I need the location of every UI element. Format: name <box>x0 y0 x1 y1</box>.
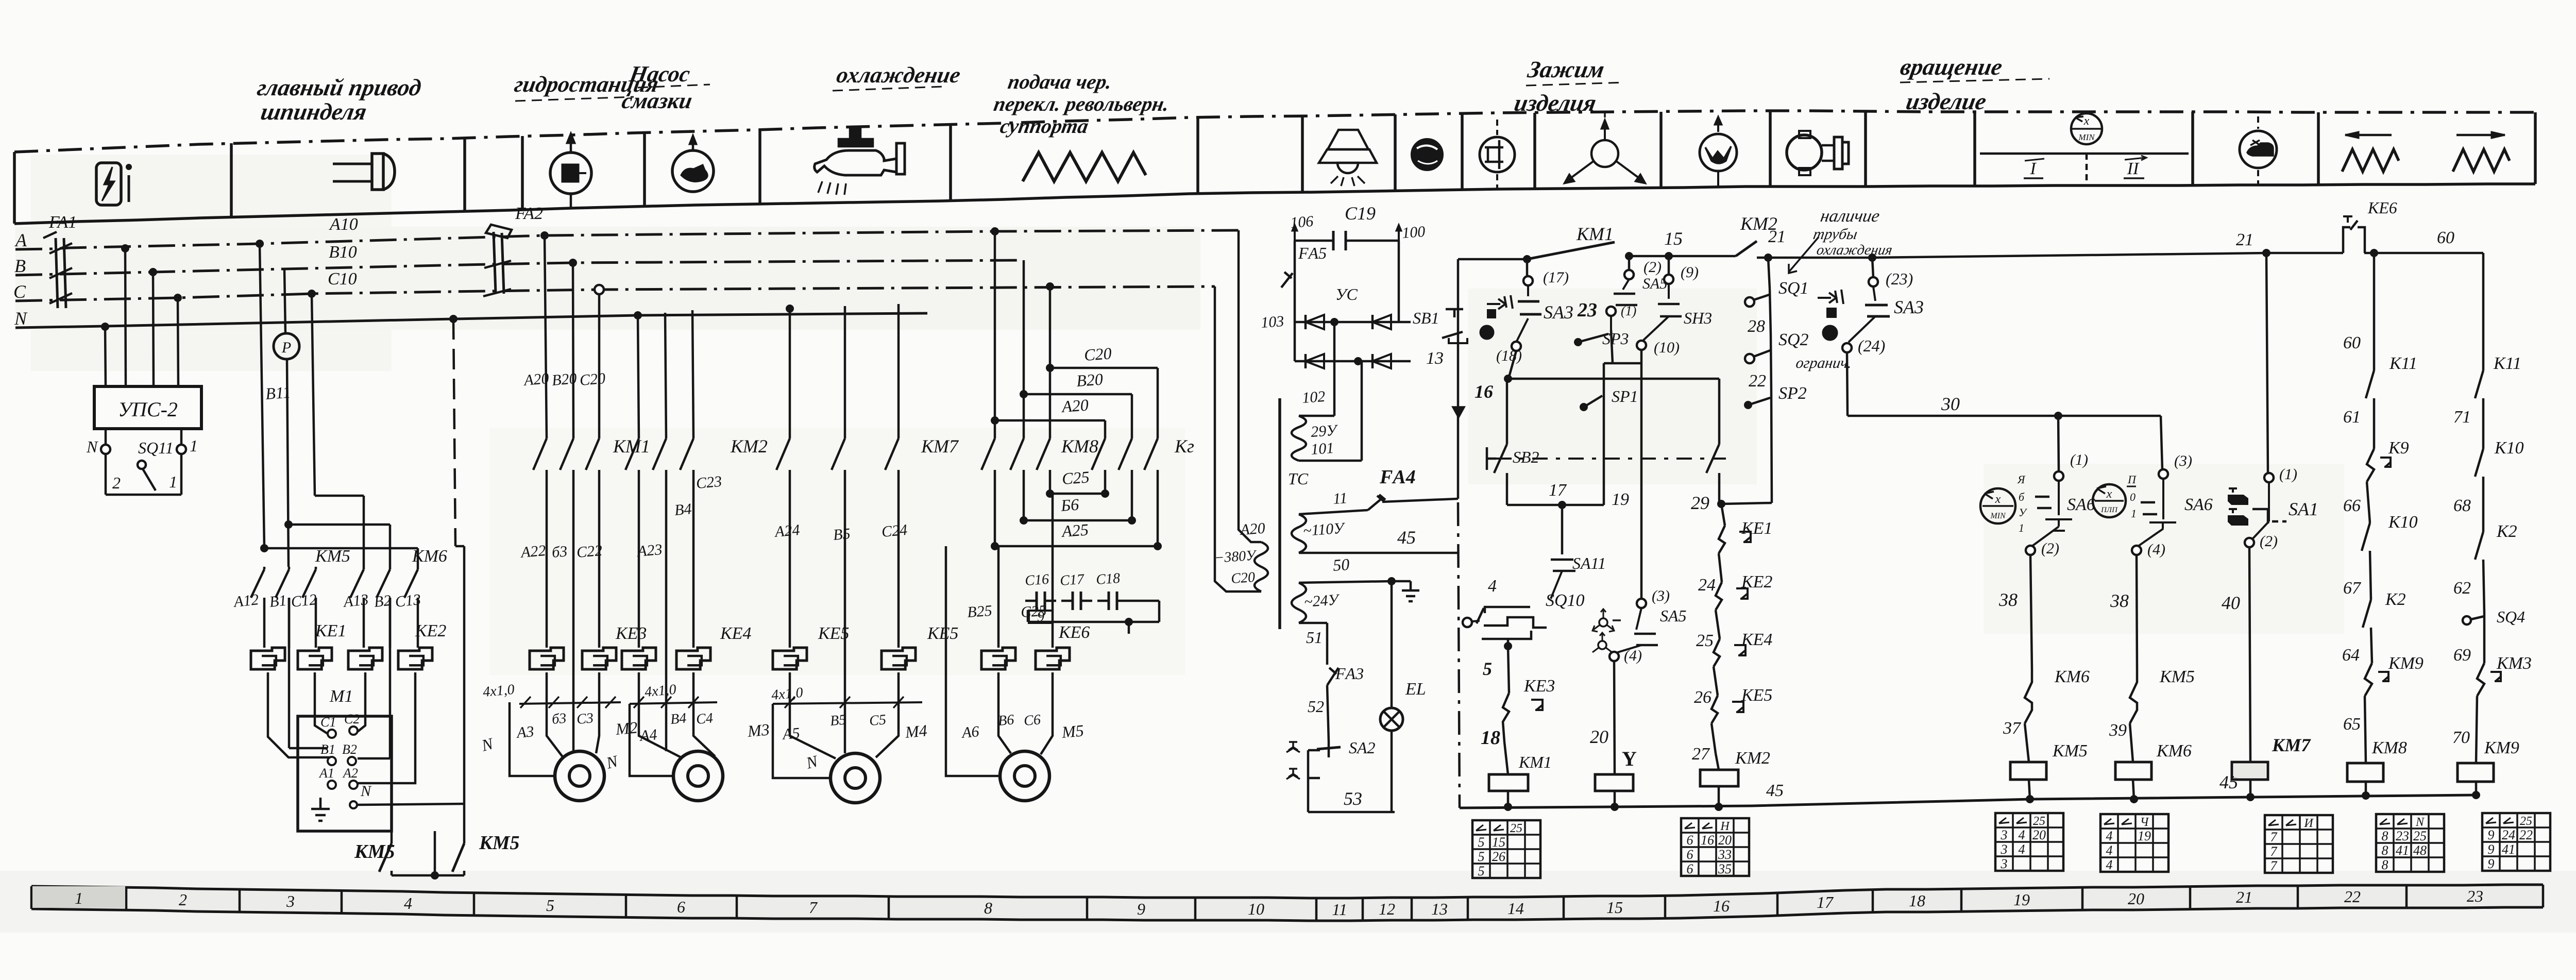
svg-text:SQ4: SQ4 <box>2497 607 2525 626</box>
svg-text:68: 68 <box>2453 496 2471 515</box>
svg-text:67: 67 <box>2343 579 2362 598</box>
cable marker 4x1,0 branch3 <box>771 685 922 708</box>
thermal contact KE6 in top rail <box>2343 198 2397 253</box>
svg-text:~24У: ~24У <box>1303 591 1341 611</box>
svg-text:М2: М2 <box>614 718 638 738</box>
svg-text:КМ5: КМ5 <box>2159 667 2195 686</box>
svg-text:А20: А20 <box>1060 395 1089 416</box>
thermal overload KE1 <box>251 621 346 669</box>
pressure sensor P <box>265 269 299 567</box>
contactor coil KM7 <box>2232 735 2311 801</box>
svg-text:50: 50 <box>1332 555 1350 575</box>
selector SA5 contacts (3)-(4) <box>1609 587 1687 664</box>
svg-text:С20: С20 <box>1083 344 1112 364</box>
wire B to UPS <box>153 272 154 386</box>
svg-text:9: 9 <box>2488 842 2495 857</box>
svg-text:14: 14 <box>1507 899 1524 918</box>
svg-text:7: 7 <box>809 898 818 917</box>
svg-text:К2: К2 <box>2385 590 2406 609</box>
lamp EL <box>1380 581 1426 812</box>
svg-text:А20: А20 <box>522 370 550 389</box>
bus A (phase A) <box>15 230 1239 249</box>
svg-text:А3: А3 <box>515 723 535 741</box>
svg-text:(1): (1) <box>2070 451 2088 468</box>
power supply unit UPS-2 <box>94 386 201 429</box>
link wire A20 to Kr <box>991 395 1105 438</box>
svg-text:С13: С13 <box>394 591 421 611</box>
svg-text:18: 18 <box>1481 727 1500 749</box>
svg-text:0: 0 <box>2130 491 2136 503</box>
contact chain (9) SH3 (10) <box>1637 252 1712 363</box>
svg-text:21: 21 <box>2236 230 2253 249</box>
svg-text:45: 45 <box>1766 781 1784 800</box>
selector SA3 right (23)-(24) <box>1818 258 1924 355</box>
svg-text:КЕ4: КЕ4 <box>720 624 751 643</box>
motor M4 feeders <box>773 672 899 778</box>
svg-text:23: 23 <box>2467 887 2483 905</box>
svg-text:7: 7 <box>2270 830 2278 844</box>
circuit breaker FA5 <box>1281 241 1327 322</box>
function-symbol strip top edge (dash-dot) <box>14 111 2535 152</box>
limit switch SQ1 <box>1745 258 1809 336</box>
svg-text:25: 25 <box>2520 815 2532 828</box>
switch SQ4 <box>2453 607 2525 665</box>
contact K11 (right column) <box>2453 354 2521 449</box>
svg-text:1: 1 <box>190 436 198 455</box>
header: workpiece clamping <box>1512 57 1606 116</box>
svg-text:9: 9 <box>2488 827 2495 842</box>
wire C20 to transformer primary <box>1215 286 1261 592</box>
svg-text:4: 4 <box>2106 857 2113 872</box>
svg-text:(2): (2) <box>1643 259 1662 276</box>
svg-text:16: 16 <box>1475 381 1493 402</box>
svg-text:С2: С2 <box>344 712 360 726</box>
svg-text:ЕL: ЕL <box>1405 680 1426 699</box>
cable marker 4x1,0 branch2 <box>630 682 717 708</box>
svg-text:SQ10: SQ10 <box>1546 591 1585 610</box>
svg-text:20: 20 <box>2128 889 2144 908</box>
svg-text:21: 21 <box>2236 888 2252 906</box>
svg-text:SВ1: SВ1 <box>1413 309 1439 327</box>
wire 20 to star coil <box>1590 661 1637 774</box>
svg-text:КМ7: КМ7 <box>2272 735 2311 755</box>
header: feed via turret switching <box>988 70 1175 138</box>
labels B5 C5 A5 M4 N <box>781 712 928 772</box>
capacitors C16 C17 C18 <box>1024 570 1159 622</box>
pressure contact SP2 <box>1744 384 1807 503</box>
svg-text:В1: В1 <box>268 592 287 611</box>
svg-text:КМ5: КМ5 <box>479 832 520 854</box>
svg-text:КМ2: КМ2 <box>730 436 768 457</box>
break contact KM5 <box>2109 667 2195 762</box>
wire 16 horizontal <box>1508 378 1719 380</box>
svg-text:С18: С18 <box>1095 570 1121 588</box>
contact SP1 <box>1580 363 1638 505</box>
svg-text:23: 23 <box>1577 299 1597 321</box>
auxiliary contact KM5 (left) <box>354 831 395 875</box>
svg-text:КЕ5: КЕ5 <box>818 624 849 643</box>
break contact KM6 <box>2003 667 2090 762</box>
ladder left rail with SB1 <box>1413 259 1467 808</box>
bus B (phase B) <box>15 260 1024 275</box>
svg-text:28: 28 <box>1748 317 1765 336</box>
wire C to UPS <box>178 298 178 386</box>
svg-text:смазки: смазки <box>620 88 694 113</box>
icon: clamp in circle <box>1480 120 1515 190</box>
svg-text:А20: А20 <box>1239 520 1266 538</box>
svg-text:A: A <box>14 230 27 250</box>
svg-text:11: 11 <box>1332 489 1348 508</box>
svg-text:65: 65 <box>2343 715 2361 734</box>
svg-text:КМ7: КМ7 <box>921 436 959 457</box>
svg-text:100: 100 <box>1401 223 1426 242</box>
svg-text:6: 6 <box>1687 847 1693 862</box>
limit switch SQ2 <box>1745 330 1853 392</box>
thermal contact KE4 <box>1694 630 1772 707</box>
svg-text:25: 25 <box>2413 829 2427 843</box>
svg-text:А5: А5 <box>781 724 801 743</box>
svg-text:52: 52 <box>1308 697 1324 716</box>
svg-text:Р: Р <box>281 339 291 356</box>
svg-text:А6: А6 <box>960 723 980 741</box>
wire 11 to FA4 <box>1299 510 1368 514</box>
motor M1 terminal box <box>298 687 392 831</box>
contactor KM1 main contacts <box>533 438 547 470</box>
svg-text:6: 6 <box>1687 833 1693 848</box>
motor M3 <box>673 751 723 801</box>
svg-text:(17): (17) <box>1543 269 1569 286</box>
thermal contact KE2 <box>1696 572 1772 650</box>
icon: three-jaw (three arrows) <box>1564 113 1646 183</box>
travel switch SQ10 <box>1463 577 1585 650</box>
svg-text:−380У: −380У <box>1214 547 1258 566</box>
header: main spindle drive <box>251 75 423 125</box>
link C to KM6 left pole <box>315 495 364 497</box>
svg-text:В5: В5 <box>829 712 847 729</box>
wire drop A10 to KM1 <box>540 231 549 240</box>
svg-text:В4: В4 <box>670 710 687 728</box>
svg-text:(9): (9) <box>1681 264 1699 281</box>
svg-text:В20: В20 <box>1076 369 1104 390</box>
svg-text:26: 26 <box>1694 688 1711 707</box>
icon: lubrication pump (oil can in circle) <box>672 135 714 192</box>
svg-text:А24: А24 <box>773 521 801 540</box>
cable marker 4x1,0 branch1 <box>482 682 621 708</box>
svg-text:27: 27 <box>1692 745 1710 764</box>
svg-text:огранич.: огранич. <box>1795 354 1853 371</box>
svg-text:21: 21 <box>1768 227 1786 246</box>
svg-text:6: 6 <box>1687 861 1693 876</box>
svg-text:39: 39 <box>2109 721 2127 740</box>
svg-text:25: 25 <box>1696 631 1714 650</box>
star contactor coil <box>1595 774 1633 811</box>
svg-text:5: 5 <box>1478 849 1485 864</box>
svg-text:С16: С16 <box>1024 571 1049 589</box>
contactor KM2 main contacts <box>625 438 639 470</box>
contact K11 (middle column) <box>2343 354 2417 449</box>
svg-text:FА5: FА5 <box>1298 244 1327 262</box>
ladder bottom rail wire 45 <box>1460 772 2475 808</box>
svg-text:4х1,0: 4х1,0 <box>644 682 677 700</box>
svg-text:А2: А2 <box>342 766 358 781</box>
svg-text:SА2: SА2 <box>1349 738 1376 757</box>
link C25 below contacts <box>1046 467 1109 498</box>
svg-text:SА6: SА6 <box>2184 495 2213 514</box>
svg-text:суппорта: суппорта <box>998 114 1090 138</box>
header: workpiece rotation <box>1892 54 2005 115</box>
icon: thread feed right (zigzag with arrow) <box>2453 132 2510 172</box>
icon: filled sphere (chucking) <box>1412 139 1443 170</box>
svg-text:x: x <box>2106 487 2112 501</box>
node joining SP3 and (10) <box>1604 362 1641 365</box>
wires KM8 outputs down to KE6 <box>967 494 1053 648</box>
svg-text:С12: С12 <box>290 591 317 611</box>
svg-text:(3): (3) <box>1652 587 1670 604</box>
svg-text:40: 40 <box>2222 593 2240 613</box>
link A to KM6 right pole <box>260 544 268 552</box>
svg-text:SQ1: SQ1 <box>1778 279 1809 298</box>
svg-text:1: 1 <box>2019 521 2024 534</box>
svg-text:К10: К10 <box>2494 438 2524 458</box>
svg-text:4х1,0: 4х1,0 <box>771 685 804 703</box>
svg-text:18: 18 <box>1909 891 1925 910</box>
svg-text:3: 3 <box>286 892 295 910</box>
svg-text:7: 7 <box>2270 844 2278 859</box>
icon: feed zigzag symbol <box>1023 153 1146 181</box>
svg-text:1: 1 <box>2131 507 2137 520</box>
svg-text:С19: С19 <box>1345 203 1376 224</box>
tachometer symbol x/min (II) <box>2093 473 2137 520</box>
svg-text:FA2: FA2 <box>515 204 543 223</box>
svg-text:охлаждения: охлаждения <box>1816 242 1894 258</box>
svg-text:КМ5: КМ5 <box>315 547 350 566</box>
svg-text:41: 41 <box>2502 842 2515 857</box>
contactor Kr main contacts <box>1092 438 1105 470</box>
ground in M1 box <box>311 798 330 821</box>
svg-text:Б6: Б6 <box>1060 495 1079 515</box>
svg-text:КМ6: КМ6 <box>2156 741 2192 761</box>
wire C drop to KM5 group <box>312 294 315 496</box>
wires KM1 to KE3 <box>547 470 599 702</box>
svg-text:С10: С10 <box>328 269 357 289</box>
svg-text:В4: В4 <box>674 500 692 519</box>
labels A12 B1 C12 A13 B2 C13 <box>232 591 421 611</box>
wire N to UPS <box>105 326 106 386</box>
svg-text:22: 22 <box>2344 887 2361 906</box>
svg-text:N: N <box>86 437 98 456</box>
svg-text:SА6: SА6 <box>2067 495 2095 514</box>
svg-text:К11: К11 <box>2493 354 2521 373</box>
selector SA6 branch with contact (1)-(2) <box>2026 416 2095 557</box>
pressure switch chain (17) SA3 (18) <box>1475 259 1573 402</box>
svg-text:КМ8: КМ8 <box>1061 436 1098 457</box>
svg-text:19: 19 <box>1612 490 1629 509</box>
auxiliary contact KM5 (right) <box>452 832 520 875</box>
wire 5 <box>1483 646 1509 693</box>
svg-text:70: 70 <box>2452 728 2470 747</box>
link A25 below contacts <box>991 470 1162 550</box>
svg-text:П: П <box>2127 473 2137 486</box>
motor M5 feeders <box>946 546 1053 776</box>
svg-text:SА1: SА1 <box>2289 499 2318 519</box>
svg-text:А25: А25 <box>1060 520 1089 540</box>
svg-text:(24): (24) <box>1858 336 1885 355</box>
circuit breaker FA2 <box>483 204 543 296</box>
svg-text:М3: М3 <box>746 720 770 740</box>
contactor coil KM6 <box>2115 741 2192 803</box>
svg-text:В20: В20 <box>551 370 578 389</box>
svg-text:10: 10 <box>1248 900 1264 918</box>
wire 51 to FA3 <box>1299 623 1327 660</box>
svg-text:Зажим: Зажим <box>1526 57 1606 83</box>
svg-text:КЕ5: КЕ5 <box>927 624 958 643</box>
wire drops to KM2 <box>634 310 693 438</box>
svg-text:101: 101 <box>1310 440 1334 458</box>
svg-text:С3: С3 <box>576 710 594 728</box>
labels B6 C6 A6 M5 <box>960 712 1084 741</box>
svg-text:MIN: MIN <box>2078 132 2095 142</box>
thermal contact KE1 <box>1698 519 1772 595</box>
svg-text:С23: С23 <box>696 473 723 492</box>
header: cooling <box>835 62 962 88</box>
svg-text:5: 5 <box>1483 658 1492 679</box>
wires KM2 to KE4 <box>639 470 693 702</box>
svg-text:б3: б3 <box>551 543 568 561</box>
svg-text:2: 2 <box>112 474 121 492</box>
svg-text:В25: В25 <box>967 602 993 621</box>
svg-text:5: 5 <box>1478 864 1485 878</box>
svg-text:КЕ6: КЕ6 <box>2367 198 2397 217</box>
icon: thread feed left (zigzag with arrow) <box>2342 132 2399 172</box>
switch SA11 <box>1551 505 1606 599</box>
svg-text:(3): (3) <box>2174 452 2192 469</box>
svg-text:4: 4 <box>2019 827 2025 842</box>
wire A to UPS <box>125 248 126 386</box>
icon: main drive spindle (plug symbol) <box>333 154 395 190</box>
svg-text:1: 1 <box>75 889 83 907</box>
svg-text:13: 13 <box>1426 349 1444 368</box>
svg-text:С: С <box>13 281 26 302</box>
svg-text:М5: М5 <box>1060 721 1084 741</box>
contact table for KM1 <box>1472 820 1540 878</box>
wire 45 from 110V winding <box>1299 527 1459 553</box>
link wire B20 to Kr <box>1020 369 1132 438</box>
svg-text:б: б <box>2019 491 2025 503</box>
svg-text:66: 66 <box>2343 496 2361 515</box>
wire drop C10 to KM1 <box>595 285 604 294</box>
svg-text:7: 7 <box>2270 858 2278 873</box>
svg-text:В11: В11 <box>265 383 292 403</box>
svg-text:11: 11 <box>1332 900 1347 919</box>
svg-text:В6: В6 <box>997 712 1015 729</box>
contact chain (2) SA5 23 (1) SP3 <box>1574 256 1667 363</box>
svg-text:КМ9: КМ9 <box>2484 738 2519 757</box>
wire A drop to KM8 <box>991 227 999 235</box>
svg-text:КЕ1: КЕ1 <box>1741 519 1772 538</box>
svg-text:16: 16 <box>1713 897 1730 915</box>
contactor coil KM1 <box>1489 753 1552 811</box>
icon: coolant selector (faucet in circle) <box>2240 116 2277 184</box>
svg-text:(2): (2) <box>2260 533 2278 550</box>
svg-text:К2: К2 <box>2496 522 2517 541</box>
contact table for KM9 <box>2482 813 2550 871</box>
svg-text:69: 69 <box>2453 646 2471 665</box>
wire 30 <box>1847 352 2161 420</box>
svg-text:К11: К11 <box>2389 354 2417 373</box>
svg-text:И: И <box>2303 817 2314 830</box>
faucet icons at SA1 <box>2229 488 2247 525</box>
bus C (phase C) <box>15 286 1215 301</box>
rectifier winding 29V 101 102 <box>1292 322 1362 461</box>
icon: coolant (faucet/tap) <box>815 128 905 195</box>
svg-text:4: 4 <box>1488 577 1497 596</box>
svg-text:4х1,0: 4х1,0 <box>482 682 515 700</box>
svg-text:КМ1: КМ1 <box>1518 753 1552 771</box>
svg-text:подача чер.: подача чер. <box>1006 70 1114 93</box>
svg-text:С25: С25 <box>1061 467 1090 488</box>
icon: hydraulic pump (circle with square, arrow up) <box>550 133 591 208</box>
svg-text:главный привод: главный привод <box>255 75 423 101</box>
wires KM7 to KE5 <box>790 470 899 702</box>
svg-text:изделие: изделие <box>1904 89 1989 115</box>
svg-text:КМ6: КМ6 <box>2054 667 2090 686</box>
ladder top rail wire 15 <box>1458 213 2483 263</box>
svg-text:перекл. револьверн.: перекл. револьверн. <box>992 92 1171 115</box>
svg-text:В1: В1 <box>320 742 335 757</box>
svg-text:К9: К9 <box>2388 438 2409 458</box>
svg-text:SВ2: SВ2 <box>1513 448 1539 466</box>
wire 29 node <box>1691 493 1772 526</box>
svg-text:8: 8 <box>984 899 992 917</box>
bus N (neutral) <box>15 313 927 328</box>
sheet zone strip <box>31 885 2543 921</box>
contactor coil KM9 <box>2458 738 2519 799</box>
contact K10 (middle) <box>2343 513 2418 600</box>
circuit breaker FA1 <box>43 213 77 308</box>
svg-text:С20: С20 <box>1230 569 1256 587</box>
thermal contact KE5 <box>1692 686 1772 764</box>
labels B4 C4 A4 M3 N <box>604 710 770 772</box>
svg-text:КЕ3: КЕ3 <box>615 624 647 643</box>
svg-text:19: 19 <box>2138 829 2151 843</box>
wire joining KM5 aux contacts <box>392 831 464 880</box>
motor M2 feeders <box>510 672 599 776</box>
thermal overload KE3 <box>530 624 647 669</box>
svg-text:51: 51 <box>1306 628 1323 647</box>
svg-text:103: 103 <box>1260 313 1284 331</box>
svg-text:1: 1 <box>169 472 177 491</box>
svg-text:С1: С1 <box>320 715 336 730</box>
svg-text:ТС: ТС <box>1288 469 1309 488</box>
contactor coil KM8 <box>2347 738 2407 800</box>
svg-text:В2: В2 <box>342 742 357 757</box>
thermal contact KE3 in control <box>1481 677 1555 774</box>
svg-text:8: 8 <box>2382 829 2388 843</box>
bus labels A B C N <box>13 230 28 329</box>
svg-text:19: 19 <box>2013 890 2030 909</box>
motor M4 <box>831 753 880 803</box>
svg-text:20: 20 <box>1718 833 1732 848</box>
transformer TC core <box>1280 398 1309 629</box>
svg-text:(1): (1) <box>1621 303 1636 318</box>
svg-text:А12: А12 <box>232 591 260 611</box>
tachometer symbol x/min (I) <box>1980 473 2028 534</box>
svg-text:КЕ2: КЕ2 <box>415 621 446 640</box>
header note: coolant pipe presence <box>1789 206 1900 273</box>
svg-text:(4): (4) <box>2147 541 2165 558</box>
svg-text:SР2: SР2 <box>1778 384 1807 403</box>
contact table for KM7 <box>2265 815 2333 873</box>
